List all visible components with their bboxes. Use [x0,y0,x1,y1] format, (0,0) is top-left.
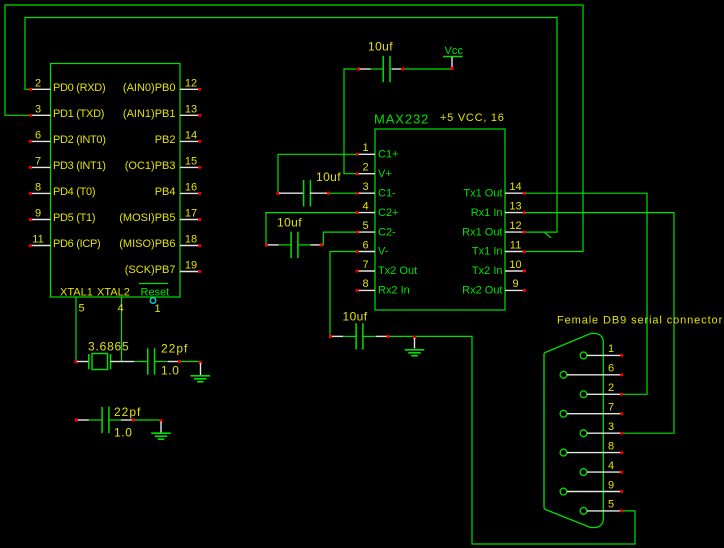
pin 11 Tx1 In of U2 [472,239,526,257]
svg-text:14: 14 [509,181,521,193]
svg-text:PB4: PB4 [155,186,176,198]
svg-text:8: 8 [35,182,41,194]
svg-text:C1+: C1+ [378,149,399,161]
pin 6 PD2 (INT0) of U1 [29,130,106,146]
wire C2 cap to C2- pin5 U2 [323,232,356,245]
capacitor C2 10uf [265,216,323,259]
svg-text:PB2: PB2 [155,134,176,146]
wire C2+ pin4 U2 [266,213,356,244]
svg-text:3: 3 [608,421,614,433]
svg-text:22pf: 22pf [161,342,188,356]
pin 1 Reset bubble of U1 [150,298,160,315]
pin 7 of J1 DB9 [560,402,623,418]
ground at C6 [151,419,171,439]
svg-text:9: 9 [512,278,518,290]
svg-text:15: 15 [185,156,197,168]
pin 19 (SCK)PB7 of U1 [125,260,201,276]
svg-text:10: 10 [509,259,521,271]
pin 12 Rx1 Out of U2 [462,220,526,238]
pin label Reset (active low) of U1 [139,284,169,299]
svg-text:Rx2 In: Rx2 In [378,285,410,297]
pin 9 Rx2 Out of U2 [462,278,526,296]
svg-text:Tx2 Out: Tx2 Out [378,265,417,277]
svg-text:1.0: 1.0 [161,364,179,378]
capacitor C3 10uf at Vcc [357,40,452,83]
svg-text:10uf: 10uf [277,216,302,230]
pin 10 Tx2 In of U2 [472,259,526,277]
capacitor C5 22pf 1.0 [124,342,200,378]
pin 14 Tx1 Out of U2 [463,181,526,199]
svg-text:6: 6 [35,130,41,142]
svg-text:Vcc: Vcc [445,45,464,57]
label +5 VCC, 16 [440,112,505,124]
svg-text:Female DB9 serial connector: Female DB9 serial connector [557,315,723,327]
pin 8 Rx2 In of U2 [356,278,410,296]
capacitor C1 10uf [276,170,356,206]
svg-text:PD5 (T1): PD5 (T1) [53,212,95,224]
pin 9 PD5 (T1) of U1 [29,208,95,224]
svg-text:PD4 (T0): PD4 (T0) [53,186,95,198]
pin 5 of J1 DB9 [580,499,623,515]
svg-text:12: 12 [509,220,521,232]
pin 16 PB4 of U1 [155,182,201,198]
svg-text:(MOSI)PB5: (MOSI)PB5 [119,212,175,224]
svg-text:7: 7 [35,156,41,168]
pin 6 V- of U2 [356,239,389,257]
svg-text:4: 4 [362,200,368,212]
svg-text:3: 3 [35,104,41,116]
pin 7 PD3 (INT1) of U1 [29,156,106,172]
label Female DB9 serial connector [557,315,723,327]
svg-text:8: 8 [608,440,614,452]
svg-text:5: 5 [78,303,84,315]
svg-text:6: 6 [608,363,614,375]
pin 9 of J1 DB9 [560,479,623,495]
svg-text:Rx1 In: Rx1 In [471,207,503,219]
svg-text:10uf: 10uf [343,310,368,324]
svg-text:3.6865: 3.6865 [88,340,130,354]
svg-text:(MISO)PB6: (MISO)PB6 [119,238,175,250]
svg-text:1: 1 [362,142,368,154]
svg-text:18: 18 [185,234,197,246]
pin 2 PD0 (RXD) of U1 [29,78,106,94]
pin 3 C1- of U2 [356,181,396,199]
svg-text:PD2 (INT0): PD2 (INT0) [53,134,106,146]
svg-text:5: 5 [362,220,368,232]
capacitor C6 22pf 1.0 [75,405,160,440]
pin 11 PD6 (ICP) of U1 [29,234,101,250]
wire C1+ pin1 U2 [278,154,356,192]
wire PD0 RXD to Rx1 Out (inner loop) [25,18,557,233]
svg-text:Tx1 In: Tx1 In [472,246,503,258]
svg-text:PD6 (ICP): PD6 (ICP) [53,238,100,250]
pin label XTAL1 of U1 [60,287,93,299]
svg-text:PD1 (TXD): PD1 (TXD) [53,108,104,120]
svg-text:(AIN1)PB1: (AIN1)PB1 [123,108,176,120]
svg-text:11: 11 [32,234,43,246]
pin 3 PD1 (TXD) of U1 [29,104,104,120]
svg-text:12: 12 [185,78,197,90]
pin 6 of J1 DB9 [560,363,623,379]
ground at C4 [405,336,425,356]
svg-text:MAX232: MAX232 [374,112,429,127]
svg-text:Rx2 Out: Rx2 Out [462,285,502,297]
IC U1 AVR microcontroller body [51,64,181,298]
wire V+ pin2 U2 to C3 [344,69,357,174]
IC U2 MAX232 body [375,129,505,310]
pin 2 of J1 DB9 [580,382,623,398]
power Vcc [443,45,463,70]
svg-text:Rx1 Out: Rx1 Out [462,226,502,238]
svg-text:8: 8 [362,278,368,290]
pin 5 C2- of U2 [356,220,396,238]
svg-text:PD3 (INT1): PD3 (INT1) [53,160,106,172]
svg-text:10uf: 10uf [316,170,341,184]
svg-text:1: 1 [608,343,614,355]
svg-text:7: 7 [608,402,614,414]
svg-text:(AIN0)PB0: (AIN0)PB0 [123,82,176,94]
pin 7 Tx2 Out of U2 [356,259,418,277]
svg-text:22pf: 22pf [114,405,141,419]
svg-text:XTAL1: XTAL1 [60,287,93,299]
connector J1 DB9 outline [544,334,603,528]
svg-text:9: 9 [608,479,614,491]
svg-text:(OC1)PB3: (OC1)PB3 [125,160,176,172]
svg-text:13: 13 [509,200,521,212]
svg-text:9: 9 [35,208,41,220]
pin 8 of J1 DB9 [560,440,623,456]
svg-text:2: 2 [362,162,368,174]
svg-text:5: 5 [608,499,614,511]
pin 18 (MISO)PB6 of U1 [119,234,201,250]
pin 13 Rx1 In of U2 [471,200,526,218]
pin 8 PD4 (T0) of U1 [29,182,95,198]
wire PD1 TXD to Tx1 In (outer loop) [5,5,583,252]
svg-text:16: 16 [185,182,197,194]
pin 5 XTAL1 stub of U1 [76,297,85,362]
wire C4 to DB9 pin 5 (bottom loop) [390,336,636,544]
svg-text:3: 3 [362,181,368,193]
pin 4 C2+ of U2 [356,200,399,218]
svg-text:13: 13 [185,104,197,116]
svg-text:6: 6 [362,239,368,251]
svg-text:Tx1 Out: Tx1 Out [463,187,502,199]
capacitor C4 10uf at V- [329,310,390,350]
crystal Y1 3.6865 [74,340,129,370]
svg-text:17: 17 [185,208,197,220]
svg-text:4: 4 [117,303,123,315]
pin 4 of J1 DB9 [580,460,623,476]
svg-text:1.0: 1.0 [114,426,132,440]
svg-text:(SCK)PB7: (SCK)PB7 [125,264,176,276]
pin 12 (AIN0)PB0 of U1 [123,78,201,94]
pin 2 V+ of U2 [356,162,392,180]
svg-text:+5 VCC, 16: +5 VCC, 16 [440,112,505,124]
label MAX232 [374,112,429,127]
svg-text:Tx2 In: Tx2 In [472,265,503,277]
svg-text:7: 7 [362,259,368,271]
svg-text:2: 2 [35,78,41,90]
pin 1 C1+ of U2 [356,142,399,160]
pin 4 XTAL2 stub of U1 [117,297,123,362]
svg-text:C2+: C2+ [378,207,399,219]
pin label XTAL2 of U1 [97,287,130,299]
pin 3 of J1 DB9 [580,421,623,437]
svg-text:14: 14 [185,130,197,142]
svg-text:19: 19 [185,260,197,272]
svg-text:4: 4 [608,460,614,472]
pin 15 (OC1)PB3 of U1 [125,156,201,172]
wire V- pin6 U2 to C4 [330,252,356,336]
ground at C5 [191,361,211,382]
pin 13 (AIN1)PB1 of U1 [123,104,201,120]
wire Rx1 In pin13 U2 to DB9 pin 3 [525,213,674,434]
svg-text:V+: V+ [378,168,392,180]
wire Tx1 Out pin14 U2 to DB9 pin 2 [525,193,647,394]
wire stub diagonal artifact near pin 12 of U2 [544,232,551,237]
svg-text:PD0 (RXD): PD0 (RXD) [53,82,105,94]
svg-text:V-: V- [378,246,389,258]
pin 17 (MOSI)PB5 of U1 [119,208,201,224]
svg-text:Reset: Reset [141,287,170,299]
svg-text:C1-: C1- [378,187,396,199]
svg-text:10uf: 10uf [368,40,393,54]
svg-text:2: 2 [608,382,614,394]
svg-text:11: 11 [510,239,521,251]
pin 1 of J1 DB9 [580,343,623,359]
svg-text:1: 1 [154,303,160,315]
svg-text:C2-: C2- [378,226,396,238]
svg-text:XTAL2: XTAL2 [97,287,130,299]
pin 14 PB2 of U1 [155,130,201,146]
